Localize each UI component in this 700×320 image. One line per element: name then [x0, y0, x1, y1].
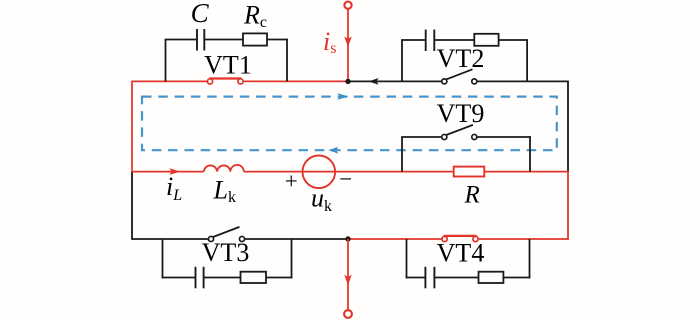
- dashed current loop rectangle (blue): [142, 97, 557, 151]
- branch VT9: wire left horizontal: [401, 136, 444, 138]
- switch VT3 left contact: [208, 236, 213, 241]
- switch VT9 left contact: [442, 134, 447, 139]
- arrow: blue right-pointing on top dashed edge: [337, 93, 348, 100]
- resistor of VT4 snubber box: [479, 272, 504, 283]
- snubber VT4: left vertical wire: [406, 239, 408, 278]
- arrow: blue left-pointing on bottom dashed edge: [328, 147, 338, 154]
- snubber VT3: wire capacitor to resistor: [204, 277, 241, 279]
- junction dot top center: [345, 79, 350, 84]
- resistor of VT2 snubber box: [474, 34, 498, 46]
- snubber VT2: left vertical wire: [401, 40, 403, 81]
- svg-text:−: −: [339, 167, 352, 192]
- snubber VT2: wire capacitor to resistor: [434, 39, 474, 41]
- arrow: is current direction (down): [344, 37, 351, 47]
- snubber VT4: wire capacitor to resistor: [434, 277, 478, 279]
- voltage source uk circle: [303, 156, 336, 189]
- snubber VT1: wire to capacitor: [165, 39, 197, 41]
- wire: left vertical black (middle wire down to bottom wire): [131, 172, 133, 240]
- bottom terminal circle: [344, 310, 352, 318]
- switch VT3 open lever: [212, 227, 240, 238]
- wire: middle wire red right segment (inductor to right corner): [244, 171, 568, 173]
- switch VT2 open lever: [445, 69, 472, 80]
- resistor R box (red): [454, 167, 485, 177]
- wire: bottom terminal red lead: [347, 239, 349, 310]
- wire: is vertical red lead: [347, 9, 349, 82]
- snubber VT3: left vertical wire: [162, 239, 164, 278]
- switch VT9 right contact: [472, 134, 477, 139]
- switch VT2 left contact: [442, 79, 447, 84]
- switch VT4 left contact: [442, 236, 447, 241]
- snubber VT2: wire resistor to right vertical: [499, 39, 527, 41]
- resistor Rc box: [243, 33, 267, 45]
- resistor of VT3 snubber box: [241, 272, 267, 283]
- snubber VT4: wire to capacitor: [406, 277, 426, 279]
- snubber VT3: wire resistor to right vertical: [266, 277, 292, 279]
- branch VT9: wire right horizontal: [474, 136, 531, 138]
- svg-text:VT4: VT4: [437, 239, 485, 268]
- switch VT3 right contact: [239, 236, 244, 241]
- capacitor C plate 1: [196, 29, 198, 51]
- arrow: black left-pointing on top wire: [369, 78, 379, 85]
- wire: middle wire red left segment (left corner to inductor): [132, 171, 204, 173]
- snubber VT3: right vertical wire: [291, 239, 293, 278]
- wire: right vertical black (top corner to middle wire): [567, 81, 569, 172]
- capacitor of VT4 snubber plate 2: [433, 267, 435, 289]
- svg-text:VT9: VT9: [437, 99, 485, 128]
- snubber VT3: wire to capacitor: [162, 277, 196, 279]
- switch VT4 closed lever (red): [444, 235, 477, 237]
- switch VT4 right contact: [473, 236, 478, 241]
- svg-text:R: R: [464, 182, 480, 209]
- capacitor of VT4 snubber plate 1: [424, 267, 426, 289]
- wire: bottom wire black left segment (left corner to VT3 left contact): [132, 238, 211, 240]
- capacitor C plate 2: [203, 29, 205, 51]
- wire: bottom wire black mid segment (VT3 right contact to junction): [242, 238, 348, 240]
- branch VT9: right vertical wire: [529, 136, 531, 172]
- snubber VT2: wire to capacitor: [401, 39, 426, 41]
- switch VT1 right contact: [238, 79, 243, 84]
- snubber VT1: wire resistor to right vertical: [267, 39, 288, 41]
- switch VT9 open lever: [445, 125, 473, 135]
- wire: right vertical red (middle wire to bottom corner): [567, 172, 569, 240]
- branch VT9: left vertical wire: [401, 137, 403, 172]
- switch VT1 closed lever (red): [209, 77, 242, 79]
- capacitor of VT2 snubber plate 2: [433, 30, 435, 52]
- svg-text:C: C: [191, 0, 210, 28]
- wire: top wire red left segment (left corner to VT1 left contact): [132, 80, 210, 82]
- snubber VT2: right vertical wire: [526, 39, 528, 81]
- snubber VT1: wire capacitor to resistor: [204, 39, 243, 41]
- switch VT2 right contact: [472, 79, 477, 84]
- capacitor of VT2 snubber plate 1: [425, 30, 427, 52]
- wire: left vertical red (top corner down to middle wire): [131, 81, 133, 172]
- capacitor of VT3 snubber plate 1: [195, 267, 197, 289]
- capacitor of VT3 snubber plate 2: [203, 267, 205, 289]
- snubber VT4: right vertical wire: [529, 239, 531, 278]
- snubber VT1: right vertical wire: [286, 39, 288, 82]
- wire: top wire black right segment (VT2 right contact to right corner): [474, 80, 568, 82]
- junction dot bottom center: [345, 236, 350, 241]
- wire: top wire black left segment (junction to VT2 left contact): [348, 80, 444, 82]
- snubber VT4: wire resistor to right vertical: [503, 277, 530, 279]
- svg-text:VT1: VT1: [204, 51, 252, 80]
- wire: bottom wire red right segment (VT4 right contact to right corner): [476, 238, 569, 240]
- inductor Lk coil: [204, 165, 244, 172]
- wire: bottom wire red left segment (junction to VT4 left contact): [348, 238, 445, 240]
- current source is terminal circle: [344, 2, 351, 9]
- switch VT1 left contact: [207, 79, 212, 84]
- arrow: bottom terminal current direction (down): [344, 275, 351, 285]
- wire: top wire red right segment (VT1 right contact to center junction): [241, 80, 349, 82]
- arrow: red right-pointing iL on middle wire: [169, 168, 180, 175]
- svg-text:VT2: VT2: [437, 44, 485, 73]
- svg-text:+: +: [285, 169, 298, 194]
- snubber VT1: left vertical wire: [165, 40, 167, 82]
